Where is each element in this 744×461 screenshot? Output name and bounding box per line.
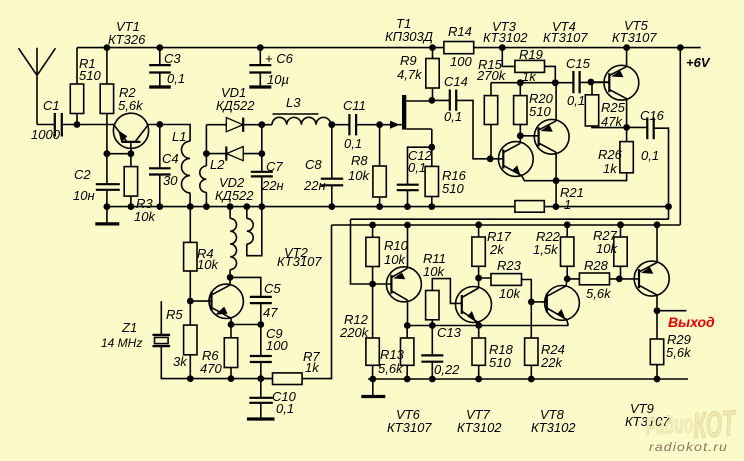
svg-text:1,5k: 1,5k (533, 242, 559, 257)
watermark (644, 402, 738, 454)
svg-text:КТ3107: КТ3107 (277, 254, 322, 269)
resistor R9 (397, 48, 439, 101)
resistor R11 (423, 251, 462, 326)
capacitor C7 (251, 125, 284, 207)
capacitor C1 (31, 98, 77, 142)
svg-text:C1: C1 (43, 98, 60, 113)
svg-text:5,6k: 5,6k (118, 98, 144, 113)
resistor R23 (479, 258, 532, 302)
svg-text:КТ3107: КТ3107 (612, 30, 657, 45)
svg-text:C15: C15 (566, 56, 591, 71)
resistor R12 (339, 284, 379, 379)
resistor R4 (184, 207, 220, 302)
capacitor C15 (566, 56, 591, 108)
capacitor C16 (627, 108, 669, 219)
resistor R14 (444, 24, 474, 69)
resistor R15 (476, 57, 507, 159)
wire VT1 collector node to L1 (160, 125, 190, 142)
svg-text:R23: R23 (497, 258, 522, 273)
capacitor C5 (230, 277, 281, 324)
svg-text:3k: 3k (173, 354, 188, 369)
svg-text:C13: C13 (437, 325, 462, 340)
svg-text:C16: C16 (640, 108, 665, 123)
svg-text:510: 510 (79, 68, 101, 83)
svg-text:10k: 10k (384, 252, 406, 267)
svg-text:C14: C14 (444, 74, 468, 89)
svg-text:10k: 10k (499, 286, 521, 301)
svg-text:C11: C11 (343, 98, 366, 113)
resistor R26 (556, 127, 633, 180)
svg-text:L1: L1 (172, 129, 186, 144)
svg-text:47: 47 (263, 305, 278, 320)
svg-text:R8: R8 (351, 153, 368, 168)
resistor R21 (515, 181, 584, 213)
svg-text:КД522: КД522 (215, 188, 254, 203)
svg-text:C5: C5 (264, 281, 281, 296)
inductor L1 (172, 129, 190, 207)
resistor R17 (472, 225, 512, 278)
node Vykhod (657, 311, 715, 330)
resistor R2 (100, 48, 144, 154)
svg-text:1k: 1k (603, 161, 618, 176)
resistor R6 (200, 325, 238, 379)
svg-text:L3: L3 (286, 95, 301, 110)
svg-text:Z1: Z1 (121, 320, 137, 335)
transistor VT4 (520, 19, 588, 181)
resistor R25 (585, 82, 626, 129)
svg-text:0,1: 0,1 (408, 160, 426, 175)
svg-text:КП303Д: КП303Д (385, 29, 433, 44)
resistor R22 (533, 225, 574, 279)
capacitor C6 (249, 48, 293, 87)
svg-text:10µ: 10µ (267, 72, 289, 87)
resistor R10 (366, 225, 409, 284)
svg-text:+6V: +6V (686, 55, 711, 70)
svg-text:КТ3102: КТ3102 (457, 420, 502, 435)
resistor R5 (166, 301, 197, 379)
svg-text:5,6k: 5,6k (378, 361, 404, 376)
capacitor C12 (397, 147, 433, 206)
wire VT2 emitter line (231, 324, 261, 326)
svg-text:10k: 10k (423, 264, 445, 279)
capacitor C11 (332, 98, 380, 151)
svg-text:100: 100 (450, 54, 472, 69)
wire VT2 bottom line (190, 378, 272, 380)
svg-text:220k: 220k (339, 325, 370, 340)
transistor VT3 (483, 19, 556, 181)
svg-text:L2: L2 (210, 157, 225, 172)
diode VD2 (206, 147, 261, 204)
capacitor C14 (432, 74, 490, 159)
resistor R16 (425, 147, 467, 206)
transistor T1 (JFET) (380, 16, 433, 147)
resistor R13 (378, 326, 414, 380)
svg-text:C4: C4 (162, 151, 179, 166)
resistor R7 (261, 225, 332, 385)
svg-text:0,1: 0,1 (444, 109, 462, 124)
capacitor C2 (73, 154, 120, 207)
transistor VT1 (77, 19, 160, 154)
svg-text:R9: R9 (400, 53, 417, 68)
svg-text:КТ3102: КТ3102 (483, 30, 528, 45)
svg-text:2k: 2k (489, 242, 505, 257)
svg-text:0,1: 0,1 (567, 93, 585, 108)
svg-text:+ C6: + C6 (265, 51, 294, 66)
svg-text:30: 30 (163, 173, 178, 188)
capacitor C10 (247, 379, 297, 419)
svg-text:47k: 47k (601, 114, 623, 129)
svg-text:270k: 270k (476, 68, 507, 83)
resistor R29 (650, 311, 692, 379)
svg-text:Выход: Выход (668, 314, 715, 330)
transistor VT9 (619, 225, 670, 429)
transistor VT6 (373, 225, 433, 435)
wire mid ground rail (107, 206, 669, 208)
transformer winding low-left (230, 207, 236, 278)
wire line B (audio +6V) (332, 224, 681, 226)
wire +6V drop (679, 48, 681, 225)
transistor VT7 (456, 278, 503, 435)
svg-text:1k: 1k (305, 360, 320, 375)
svg-text:КТ3107: КТ3107 (387, 420, 432, 435)
svg-text:10k: 10k (348, 168, 370, 183)
svg-text:R28: R28 (584, 258, 609, 273)
svg-text:470: 470 (200, 361, 222, 376)
resistor R1 (70, 48, 101, 125)
svg-text:22k: 22k (540, 355, 563, 370)
svg-text:22н: 22н (261, 178, 284, 193)
svg-text:КТ326: КТ326 (108, 32, 146, 47)
wire base line VT1 (107, 153, 131, 155)
svg-text:22н: 22н (303, 178, 326, 193)
ground (95, 207, 119, 224)
capacitor C3 (149, 48, 185, 87)
diode VD1 (216, 85, 255, 132)
svg-text:510: 510 (529, 104, 551, 119)
svg-text:R5: R5 (166, 307, 183, 322)
svg-text:10k: 10k (134, 209, 156, 224)
svg-text:radiokot.ru: radiokot.ru (649, 440, 728, 454)
svg-text:10н: 10н (73, 188, 95, 203)
svg-text:R13: R13 (380, 347, 405, 362)
transistor VT2 (190, 245, 322, 325)
ground audio (361, 379, 385, 397)
wire line A (feedback to VT6 base) (351, 219, 669, 284)
resistor R8 (348, 125, 386, 207)
svg-text:0,1: 0,1 (276, 401, 294, 416)
resistor R20 (514, 83, 554, 136)
svg-text:0,1: 0,1 (641, 148, 659, 163)
svg-text:R14: R14 (448, 24, 472, 39)
wire node82 (491, 81, 609, 83)
svg-text:14 MHz: 14 MHz (101, 336, 142, 350)
svg-text:0,22: 0,22 (434, 362, 460, 377)
capacitor C9 (250, 325, 289, 379)
svg-text:R25: R25 (601, 100, 626, 115)
svg-text:Радио: Радио (644, 410, 694, 441)
wire VT6 collector line (407, 325, 568, 327)
svg-text:0,1: 0,1 (344, 136, 362, 151)
svg-text:C7: C7 (266, 159, 283, 174)
svg-text:0,1: 0,1 (167, 71, 185, 86)
svg-text:1k: 1k (522, 69, 537, 84)
capacitor C4 (149, 125, 179, 207)
wire VD column (206, 125, 261, 154)
svg-text:5,6k: 5,6k (586, 286, 612, 301)
svg-text:5,6k: 5,6k (666, 345, 692, 360)
capacitor C8 (303, 125, 343, 207)
svg-text:10k: 10k (596, 241, 618, 256)
resistor R3 (124, 154, 156, 224)
svg-text:R19: R19 (519, 47, 543, 62)
svg-text:10k: 10k (197, 257, 219, 272)
svg-text:КД522: КД522 (216, 98, 255, 113)
wire top +6V rail (77, 48, 711, 70)
svg-text:КТ3107: КТ3107 (543, 30, 588, 45)
inductor L2 (200, 154, 225, 207)
antenna (19, 48, 56, 125)
svg-text:R26: R26 (598, 147, 623, 162)
resistor R18 (472, 326, 514, 380)
svg-text:1000: 1000 (31, 127, 61, 142)
crystal Z1 (101, 301, 190, 379)
svg-text:100: 100 (266, 338, 288, 353)
svg-text:КТ3102: КТ3102 (531, 420, 576, 435)
inductor L3 (262, 95, 332, 125)
svg-text:C2: C2 (74, 167, 91, 182)
svg-text:C8: C8 (305, 157, 322, 172)
svg-text:4,7k: 4,7k (397, 67, 423, 82)
resistor R27 (593, 225, 627, 279)
capacitor C13 (421, 325, 461, 379)
wire audio bottom rail (368, 378, 688, 380)
resistor R28 (567, 258, 619, 301)
svg-text:C3: C3 (164, 51, 181, 66)
svg-text:510: 510 (442, 181, 464, 196)
svg-text:1: 1 (564, 197, 571, 212)
transistor VT8 (531, 279, 579, 435)
svg-text:R10: R10 (384, 238, 409, 253)
resistor R24 (525, 302, 565, 379)
svg-text:510: 510 (489, 355, 511, 370)
resistor R19 (502, 47, 555, 84)
transformer winding low-right (247, 207, 262, 256)
transistor VT5 (591, 18, 657, 127)
